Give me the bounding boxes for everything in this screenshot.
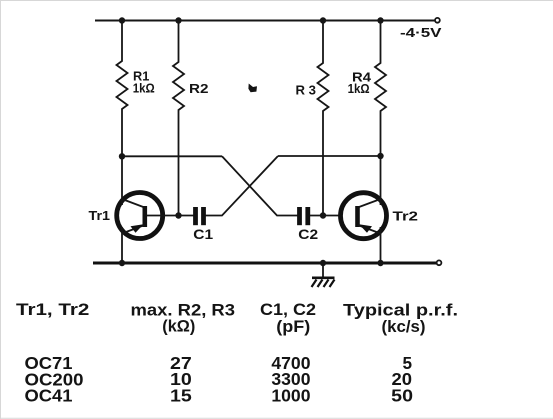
wire: Tr2 collector lead: [380, 156, 382, 205]
ground (earth) symbol: [312, 263, 335, 287]
wire: C2 to Tr2 base: [310, 215, 341, 217]
stray printing mark: [248, 84, 257, 93]
capacitor C2: [298, 207, 318, 242]
wire: Tr2 emitter lead: [380, 227, 382, 263]
resistor R2: [173, 21, 209, 216]
svg-text:(pF): (pF): [276, 318, 310, 336]
table header: C1, C2: [260, 301, 316, 319]
node: Tr1 base junction with R2: [175, 212, 181, 218]
table row OC200: [25, 369, 413, 389]
svg-text:50: 50: [391, 386, 413, 406]
svg-text:C1: C1: [193, 227, 213, 242]
node: Tr2 base junction with R3: [320, 212, 326, 218]
wire: bottom ground rail: [93, 262, 437, 265]
node: rail junction R4: [377, 17, 383, 23]
svg-text:OC41: OC41: [25, 386, 73, 406]
node: Tr1 emitter junction: [119, 260, 125, 266]
node: rail junction R1: [119, 17, 125, 23]
resistor R3: [296, 21, 329, 216]
table row OC71: [25, 353, 413, 373]
node: Tr2 emitter junction: [377, 260, 383, 266]
table row OC41: [25, 386, 414, 406]
wire: cross-coupling diagonal to C2: [222, 156, 298, 215]
table header: max. R2, R3: [131, 302, 236, 320]
svg-text:-4·5V: -4·5V: [400, 26, 442, 40]
node: Tr1 collector junction: [119, 153, 125, 159]
wire: top supply rail: [95, 20, 435, 22]
wire: Tr2 collector horizontal: [278, 155, 381, 157]
svg-text:R2: R2: [189, 82, 209, 96]
table header: Typical p.r.f.: [343, 302, 458, 320]
svg-text:Tr1: Tr1: [89, 209, 111, 223]
svg-text:C1, C2: C1, C2: [260, 301, 316, 319]
svg-text:15: 15: [170, 386, 192, 406]
capacitor C1: [193, 207, 213, 242]
supply terminal (open circle): [435, 18, 440, 23]
wire: Tr1 emitter lead: [121, 227, 123, 263]
table header: (kc/s): [382, 318, 426, 336]
svg-text:1kΩ: 1kΩ: [348, 82, 370, 96]
svg-text:1kΩ: 1kΩ: [133, 82, 155, 96]
table header: (kOhm): [162, 318, 195, 336]
ground rail terminal (open circle): [437, 260, 442, 265]
wire: Tr1 collector lead: [121, 156, 123, 205]
svg-text:Tr2: Tr2: [393, 209, 419, 223]
node: rail junction R2: [175, 17, 181, 23]
transistor Tr2: [341, 193, 419, 239]
transistor Tr1: [89, 193, 163, 239]
resistor R4: [348, 21, 386, 157]
svg-text:R 3: R 3: [296, 83, 317, 97]
label -4.5V: [400, 26, 442, 40]
table header: (pF): [276, 318, 310, 336]
node: ground junction: [320, 260, 326, 266]
svg-text:1000: 1000: [271, 386, 310, 406]
svg-text:Tr1, Tr2: Tr1, Tr2: [16, 301, 89, 319]
resistor R1: [117, 21, 155, 157]
svg-text:Typical p.r.f.: Typical p.r.f.: [343, 302, 458, 320]
wire: Tr1 collector horizontal: [122, 155, 222, 157]
wire: cross-coupling diagonal to C1: [206, 156, 279, 216]
table header: Tr1, Tr2: [16, 301, 89, 319]
svg-text:C2: C2: [298, 227, 318, 242]
svg-text:(kc/s): (kc/s): [382, 318, 426, 336]
node: Tr2 collector junction: [377, 153, 383, 159]
wire: Tr1 base lead: [147, 215, 194, 217]
svg-text:(kΩ): (kΩ): [162, 318, 195, 336]
node: rail junction R3: [320, 17, 326, 23]
